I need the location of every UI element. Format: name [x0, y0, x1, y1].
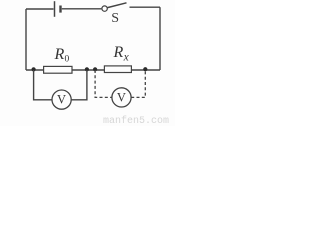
node C junction dot (dashed voltmeter tap) — [93, 67, 97, 71]
watermark manfen5.com — [103, 116, 169, 127]
wire: left voltmeter right leg — [71, 70, 87, 100]
wire: switch to top-right corner — [130, 6, 161, 8]
battery short plate (right) — [59, 6, 61, 13]
wire: left voltmeter left leg — [34, 70, 52, 100]
wire: dashed right leg of voltmeter V2 — [131, 70, 145, 97]
wire: right vertical main branch — [159, 7, 161, 70]
node D junction dot (right dashed tap) — [143, 67, 147, 71]
svg-text:x: x — [123, 52, 130, 64]
resistor Rx body — [104, 66, 131, 73]
voltmeter V1 circle — [52, 90, 71, 109]
node B junction dot (between R0 and voltmeter branches) — [85, 67, 89, 71]
voltmeter V2 circle — [112, 88, 131, 107]
svg-text:R: R — [54, 46, 65, 63]
wire: middle horizontal bus — [26, 69, 160, 71]
battery long plate (left) — [54, 1, 56, 17]
wire: left vertical main branch — [25, 9, 27, 70]
wire: top-left horizontal from left corner to battery — [26, 8, 54, 10]
svg-text:0: 0 — [65, 55, 70, 65]
wire: battery to switch — [62, 8, 102, 10]
resistor R0 body — [44, 66, 72, 73]
switch S pivot circle — [102, 6, 107, 11]
svg-text:R: R — [113, 44, 124, 61]
wire: dashed left leg of voltmeter V2 — [95, 70, 112, 97]
switch S arm (open blade) — [108, 3, 127, 8]
svg-text:V: V — [117, 91, 126, 105]
svg-text:S: S — [111, 11, 119, 26]
svg-text:V: V — [57, 93, 66, 107]
node A junction dot (left voltmeter tap) — [31, 67, 35, 71]
